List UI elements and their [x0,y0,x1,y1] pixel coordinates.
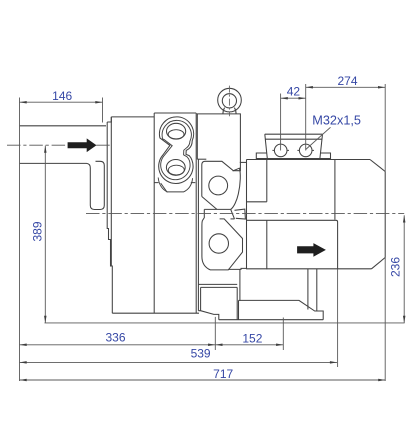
extension 539 right [337,269,339,367]
eye bolt collar [223,108,236,114]
top cover block bottom-left stub [197,158,206,160]
flange F2 top lobe [202,161,241,209]
flange F1 bottom skirt [158,178,192,192]
outlet duct top edge [247,220,338,268]
base plate left edge [238,300,240,319]
pump housing bottom edge [112,312,199,314]
floor line [45,322,405,324]
flange F1 inner contour [161,120,192,179]
flange F2 top hole [209,176,228,195]
arrowheads dim 42 [281,97,288,100]
svg-text:146: 146 [52,89,72,103]
inlet pipe top wall [20,125,107,127]
pipe centerline [7,144,112,146]
flange F2 top lobe chamfer face [202,197,217,210]
muffler box bottom notch [198,311,218,320]
cable gland right [299,144,312,157]
arrowheads dim 236 [403,215,406,222]
cable gland left [274,144,287,157]
svg-text:M32x1,5: M32x1,5 [312,113,361,127]
motor right edge [384,172,386,258]
flange F2 neck right slant [231,209,235,219]
extension line left x19.5 [19,98,21,382]
pump front cover edge [107,122,112,313]
dim 42/274 extension mid [305,84,307,151]
svg-text:274: 274 [337,74,357,88]
flange F2 neck left [202,209,204,220]
terminal box feet [256,153,330,159]
flange F2 waist tab [235,209,246,219]
motor top-right chamfer [370,160,385,172]
motor adapter foot edge [239,269,241,301]
terminal box left side [265,134,268,158]
motor fan cover joint [334,160,336,220]
flange F1 bottom hole [166,160,185,176]
eye bolt ring outer [218,88,242,112]
svg-text:236: 236 [389,257,403,277]
manifold block 1 top edge [154,112,196,114]
pump cover top ledge [107,117,111,122]
dim 717 line [20,379,386,381]
eye bolt ring inner [222,94,236,108]
manifold block 1 right edge [195,113,197,313]
arrowheads dim 274 [306,86,313,89]
terminal box plate top [265,133,323,135]
extension machine right edge [384,84,386,381]
dim 42 extension left [280,94,282,151]
arrowheads dim 152 [215,344,222,347]
flange F2 bottom lobe [202,219,243,270]
muffler box left double edge [200,287,202,310]
motor bottom-right chamfer [372,258,386,269]
leader M32x1,5 [306,127,331,149]
flange F2 block left edge [197,159,199,310]
base strip top [219,319,323,321]
extension line 146 right [102,98,104,123]
eye bolt centerline [228,86,230,117]
dim 146 line [20,101,103,103]
base plate top [239,300,324,319]
flange F2 top lobe bottom edge [204,208,230,210]
motor foot ribs [308,269,317,311]
flow arrow outlet [297,243,326,257]
arrowheads dim 717 [20,379,27,382]
dim 42 line [281,97,306,99]
pump housing face [110,117,112,266]
flange F2 block top-right shoulder [240,161,247,163]
terminal box plate second line [265,138,322,140]
svg-text:539: 539 [191,347,211,361]
dim 389 line [44,146,46,323]
top cover block [197,114,240,171]
motor flange ring [247,160,267,270]
arrowheads dim 539 [20,361,27,364]
outlet duct bottom edge [247,268,372,270]
dim 539 line [20,361,338,363]
arrowheads dim 146 [20,101,27,104]
flange F2 bottom lobe top stub [231,218,235,220]
svg-text:152: 152 [242,331,262,345]
flow arrow inlet [68,138,97,152]
arrowheads dim 336 [20,344,27,347]
flange F1 outer contour [159,117,194,184]
svg-text:42: 42 [287,84,301,98]
pump housing top edge [111,116,154,118]
terminal box right side [320,134,323,158]
motor top edge [247,159,371,161]
flange F2 footer edge [228,268,246,269]
manifold block 1 left edge [153,113,155,313]
inlet pipe bottom wall [20,163,91,168]
svg-text:717: 717 [213,367,233,381]
flange F1 bottom-left gusset [161,183,168,192]
flange F1 top hole [167,123,186,139]
pump axis centerline [86,212,404,214]
arrowheads dim 389 [44,146,47,153]
svg-text:389: 389 [31,221,45,241]
muffler box top double line [198,284,237,287]
dim 152 extensions [215,317,283,350]
manifold block 1 bottom stubs [154,182,195,184]
svg-text:336: 336 [105,331,125,345]
dim 236 line [403,215,405,323]
dim 336/152 line [20,344,284,346]
flange F2 bottom hole [209,234,228,253]
inlet silencer body [90,161,104,209]
muffler box right edge [236,287,238,319]
dim 274 line [306,86,386,88]
